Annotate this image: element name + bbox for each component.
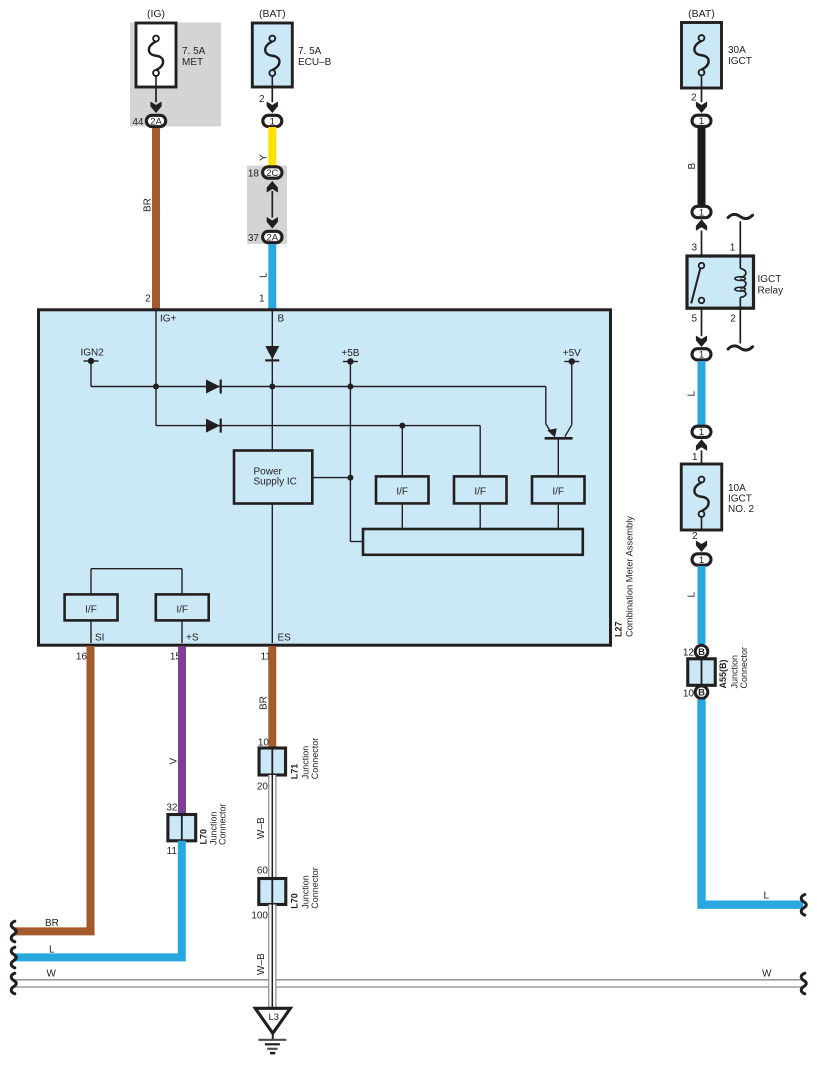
svg-text:Junction: Junction [729,655,739,689]
svg-text:I/F: I/F [396,486,408,497]
svg-text:Connector: Connector [218,803,228,845]
svg-text:1: 1 [699,555,704,566]
svg-text:1: 1 [692,452,698,463]
svg-text:11: 11 [167,846,178,857]
svg-text:10: 10 [683,689,695,700]
svg-text:100: 100 [251,911,268,922]
svg-text:7. 5A: 7. 5A [182,46,206,57]
svg-text:B: B [698,647,705,658]
svg-text:IGCT: IGCT [728,56,752,67]
svg-text:IGN2: IGN2 [81,347,105,358]
svg-text:L3: L3 [269,1012,280,1023]
svg-text:L: L [259,272,270,278]
svg-text:37: 37 [248,233,260,244]
svg-text:18: 18 [248,169,260,180]
svg-text:Combination Meter Assembly: Combination Meter Assembly [625,516,635,637]
svg-text:1: 1 [699,116,704,127]
svg-text:L70: L70 [289,893,299,909]
svg-text:W: W [762,969,772,980]
svg-text:L: L [764,891,770,902]
svg-text:(BAT): (BAT) [259,8,286,20]
svg-text:30A: 30A [728,45,746,56]
svg-text:2A: 2A [266,232,278,243]
svg-text:L: L [687,391,698,397]
svg-text:Connector: Connector [739,647,749,689]
svg-text:I/F: I/F [552,486,564,497]
svg-text:Relay: Relay [758,286,784,297]
svg-text:I/F: I/F [474,486,486,497]
svg-text:MET: MET [182,57,203,68]
svg-text:2: 2 [730,313,736,324]
svg-text:3: 3 [691,242,697,253]
svg-text:I/F: I/F [176,604,188,615]
svg-text:20: 20 [257,782,269,793]
svg-text:L: L [49,945,55,956]
svg-text:IGCT: IGCT [758,274,782,285]
svg-text:+5V: +5V [563,348,581,359]
svg-text:B: B [687,163,698,170]
svg-text:B: B [698,688,705,699]
svg-text:W–B: W–B [256,817,267,839]
svg-text:(BAT): (BAT) [688,8,715,20]
svg-text:16: 16 [76,652,88,663]
svg-text:B: B [278,314,285,325]
svg-text:IG+: IG+ [160,314,177,325]
svg-text:SI: SI [95,633,104,644]
svg-text:ECU–B: ECU–B [298,57,332,68]
svg-text:10A: 10A [728,483,746,494]
svg-text:5: 5 [691,313,697,324]
svg-text:BR: BR [143,198,154,212]
svg-text:1: 1 [699,207,704,218]
svg-text:32: 32 [166,803,178,814]
svg-text:+S: +S [186,633,199,644]
svg-text:W–B: W–B [256,953,267,975]
svg-text:NO. 2: NO. 2 [728,504,755,515]
svg-text:1: 1 [699,350,704,361]
svg-text:IGCT: IGCT [728,494,752,505]
svg-text:12: 12 [683,648,695,659]
svg-text:44: 44 [132,117,144,128]
svg-text:2C: 2C [266,168,278,179]
svg-text:L70: L70 [198,829,208,845]
svg-text:A55(B): A55(B) [718,659,728,688]
svg-text:V: V [169,758,180,765]
svg-text:Supply IC: Supply IC [254,477,297,488]
svg-text:W: W [47,969,57,980]
svg-text:1: 1 [259,294,265,305]
svg-text:2: 2 [692,531,698,542]
svg-text:2A: 2A [150,116,162,127]
svg-text:+5B: +5B [341,348,359,359]
svg-text:L71: L71 [289,764,299,780]
svg-text:BR: BR [45,918,59,929]
svg-text:BR: BR [259,696,270,710]
svg-text:(IG): (IG) [147,8,165,20]
svg-text:7. 5A: 7. 5A [298,46,322,57]
svg-text:1: 1 [730,242,736,253]
svg-text:ES: ES [278,633,292,644]
svg-text:2: 2 [145,294,151,305]
svg-text:2: 2 [259,94,265,105]
svg-text:1: 1 [270,116,275,127]
svg-text:Junction: Junction [301,746,311,780]
svg-text:Y: Y [259,154,270,161]
svg-text:60: 60 [257,866,269,877]
svg-text:L: L [687,592,698,598]
svg-text:I/F: I/F [85,604,97,615]
svg-text:L27: L27 [614,621,624,637]
svg-text:1: 1 [699,427,704,438]
svg-text:Connector: Connector [310,867,320,909]
svg-text:Connector: Connector [310,738,320,780]
svg-text:Junction: Junction [301,875,311,909]
